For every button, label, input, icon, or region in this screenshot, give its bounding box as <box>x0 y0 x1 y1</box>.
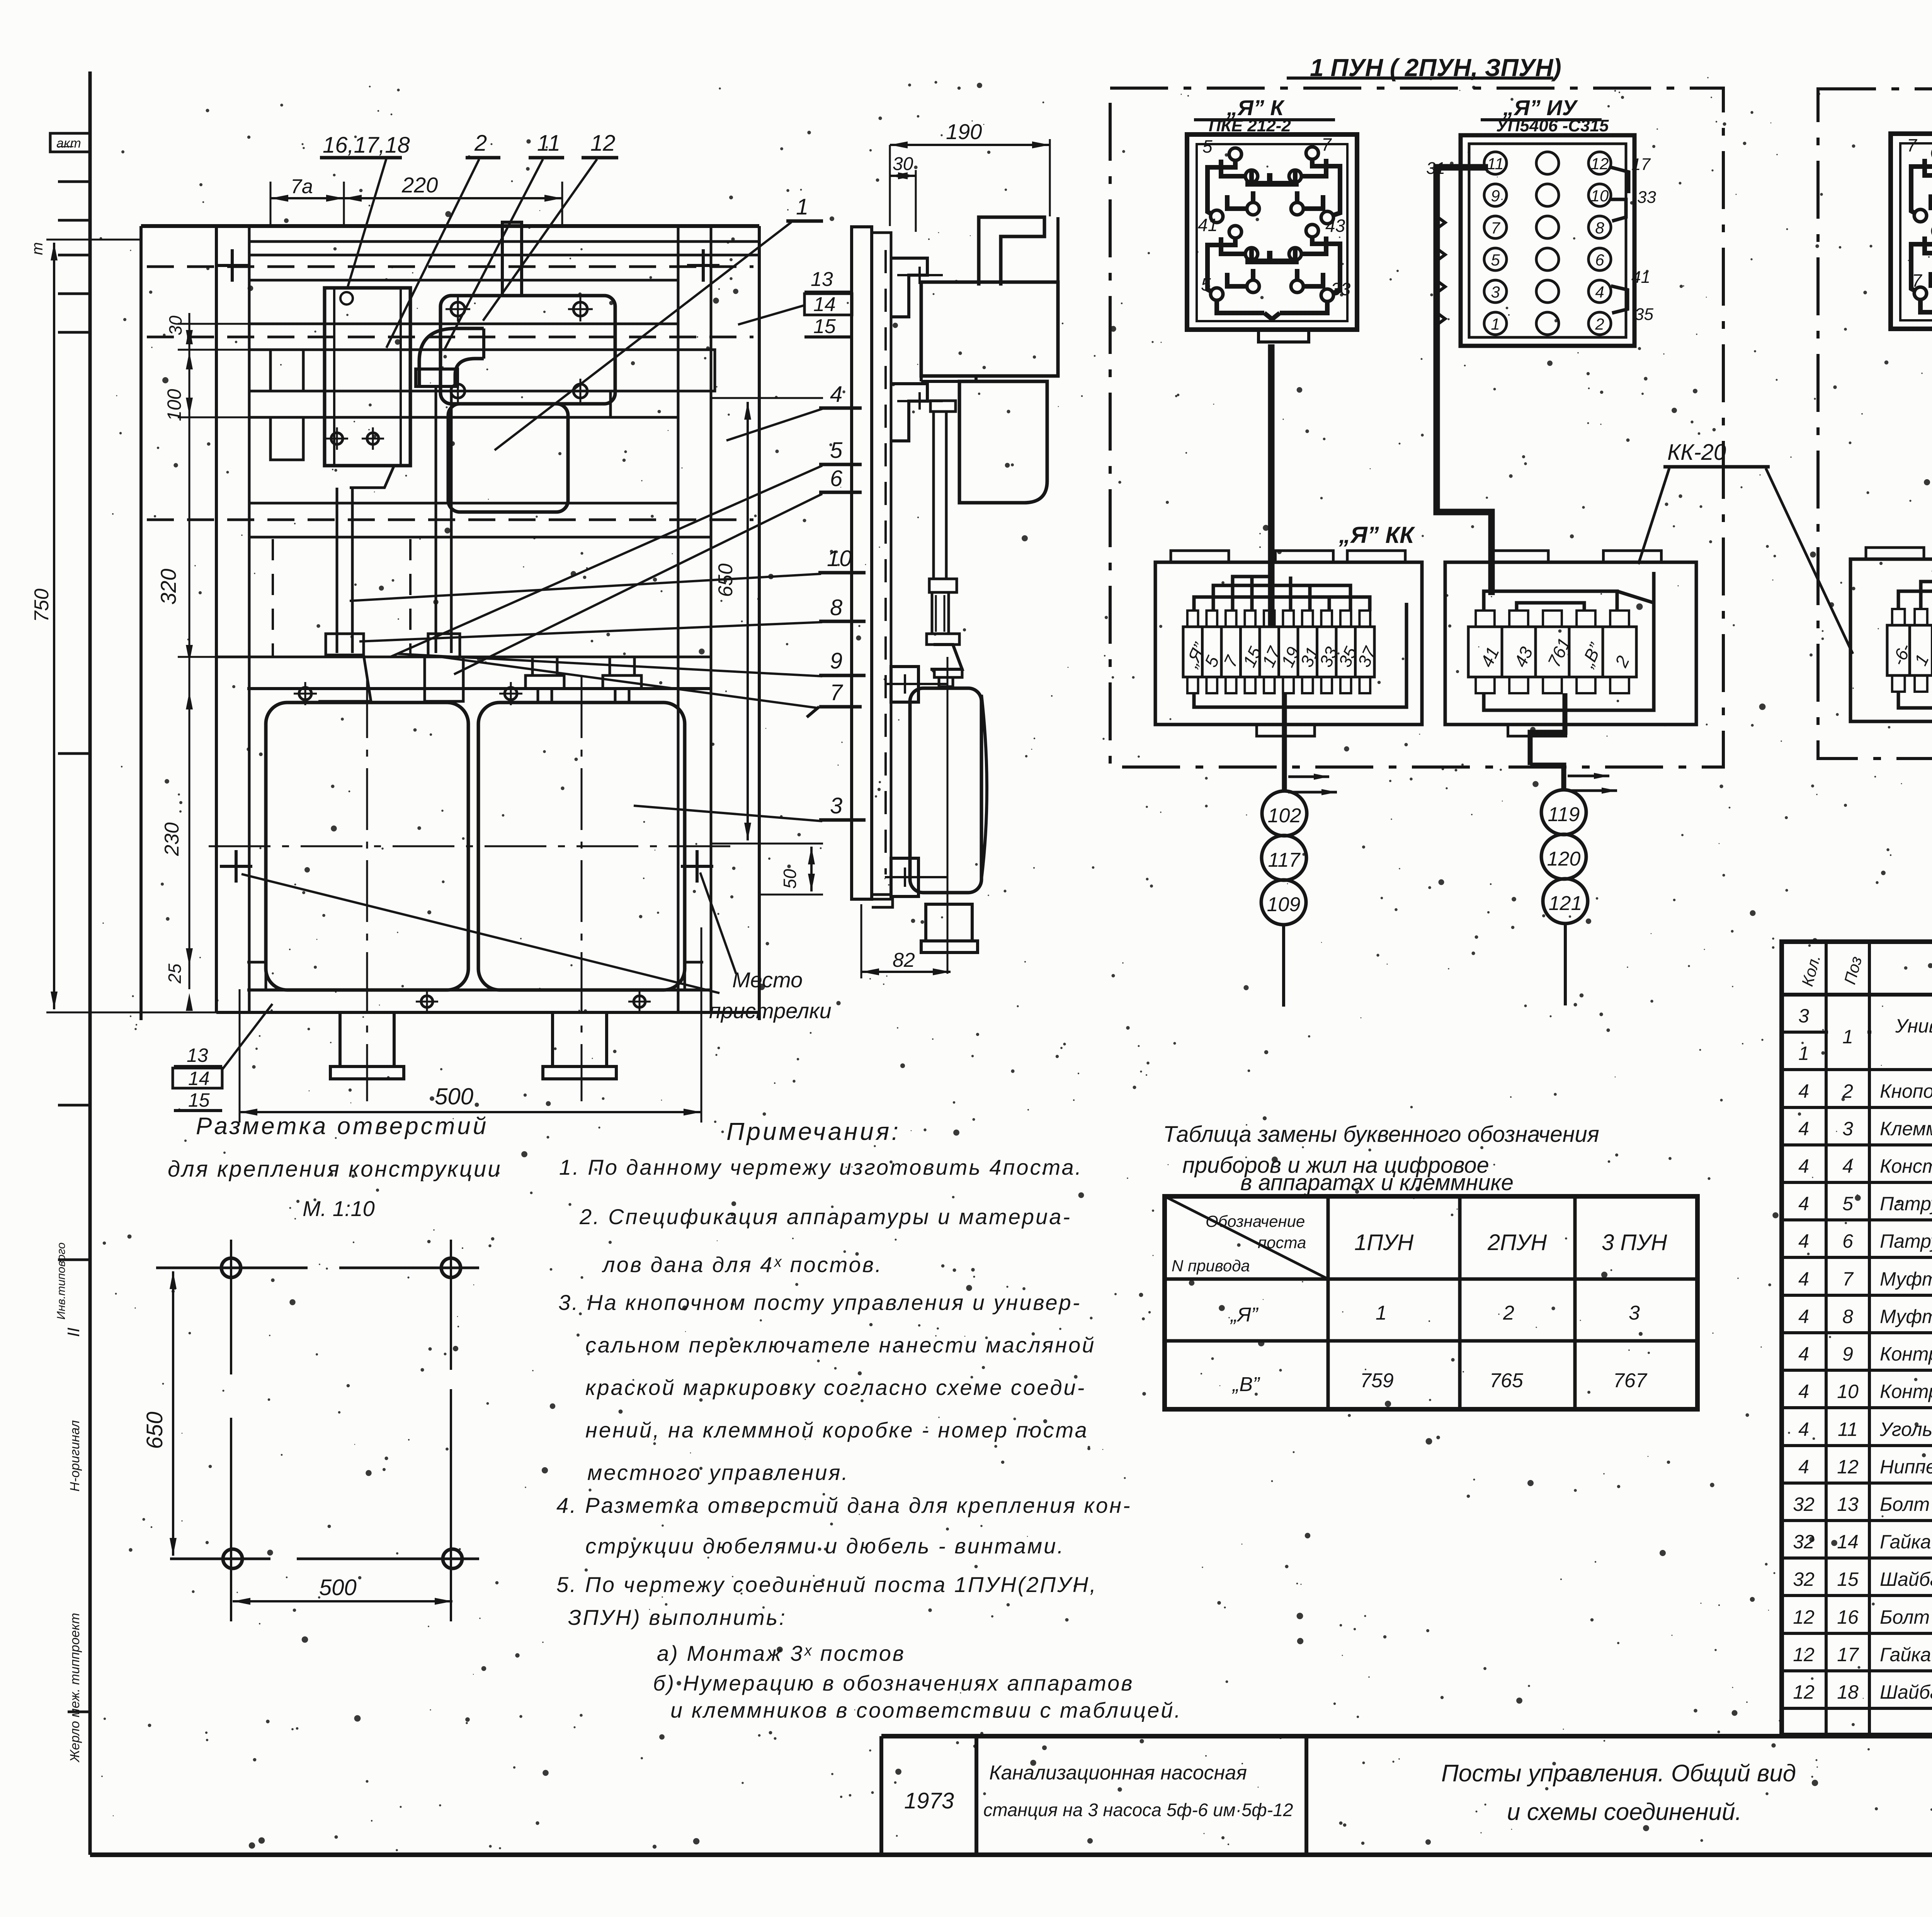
svg-text:31: 31 <box>1426 159 1445 178</box>
cable circles 102 117 109 <box>1262 791 1307 836</box>
svg-text:16,17,18: 16,17,18 <box>323 133 410 158</box>
svg-text:4: 4 <box>1798 1118 1809 1140</box>
tank fittings on right <box>526 675 564 689</box>
svg-text:121: 121 <box>1549 892 1582 915</box>
svg-text:М. 1:10: М. 1:10 <box>303 1196 375 1221</box>
side view switch box <box>921 282 1058 376</box>
svg-text:7: 7 <box>830 680 844 705</box>
svg-text:4: 4 <box>1595 283 1604 301</box>
side view dim 190 <box>890 144 1050 146</box>
terminal cell <box>1336 627 1355 677</box>
connector body <box>1461 135 1634 346</box>
side view pipe <box>930 401 956 412</box>
contact row <box>1484 216 1507 238</box>
box bottom tab <box>1257 725 1315 736</box>
connector body <box>1891 134 1932 329</box>
svg-text:4: 4 <box>1798 1419 1809 1440</box>
svg-text:750: 750 <box>31 589 53 622</box>
connector cable tab <box>1259 330 1309 342</box>
svg-text:Гайка ГОСТ 5915-70: Гайка ГОСТ 5915-70 <box>1880 1531 1932 1553</box>
terminal boxes KK-20 (pos 3) front: two tanks <box>247 687 711 690</box>
svg-text:4: 4 <box>1798 1456 1809 1478</box>
terminal cell <box>1502 627 1536 677</box>
terminal box right half <box>1445 562 1696 725</box>
YAIU right hooks <box>1611 199 1626 221</box>
svg-text:25: 25 <box>165 963 185 984</box>
universal switch (pos 1) <box>502 222 522 296</box>
cable circles 119 120 121 <box>1541 790 1586 835</box>
svg-text:12: 12 <box>590 131 616 156</box>
svg-text:3. На кнопочном посту управ: 3. На кнопочном посту управления и униве… <box>558 1290 1081 1315</box>
terminal box left half <box>1155 562 1422 725</box>
svg-text:б) Нумерацию в обозначениях: б) Нумерацию в обозначениях аппаратов <box>653 1671 1134 1695</box>
terminal cell <box>1202 627 1222 677</box>
svg-text:Инв.типового: Инв.типового <box>55 1242 68 1320</box>
svg-text:1: 1 <box>1798 1043 1809 1064</box>
side view terminal box KK-20 <box>910 688 981 893</box>
svg-text:5: 5 <box>1491 251 1500 269</box>
svg-text:119: 119 <box>1548 803 1580 826</box>
dim 650 hole layout <box>172 1271 174 1556</box>
frame bottom border <box>90 1852 1932 1857</box>
svg-text:12: 12 <box>1793 1681 1815 1703</box>
svg-text:117: 117 <box>1268 849 1301 871</box>
side view bracket 2 <box>891 384 927 441</box>
svg-text:3 ПУН: 3 ПУН <box>1602 1230 1667 1255</box>
svg-text:а) Монтаж 3ˣ постов: а) Монтаж 3ˣ постов <box>657 1641 905 1665</box>
svg-text:8: 8 <box>1842 1306 1853 1327</box>
svg-text:12: 12 <box>1793 1606 1815 1628</box>
svg-text:Конструкция поста: Конструкция поста <box>1880 1155 1932 1177</box>
terminal cell <box>1317 627 1337 677</box>
svg-text:Болт ГОСТ 7798-70: Болт ГОСТ 7798-70 <box>1880 1493 1932 1515</box>
svg-text:4: 4 <box>1798 1306 1809 1327</box>
svg-text:7: 7 <box>1907 135 1917 155</box>
side view centerline <box>947 657 949 974</box>
terminal cell <box>1910 625 1932 675</box>
dim 750 left <box>46 239 141 241</box>
svg-text:Жерло меж. типпроект: Жерло меж. типпроект <box>68 1613 82 1763</box>
svg-text:Место: Место <box>732 968 803 992</box>
svg-text:в аппаратах и клеммнике: в аппаратах и клеммнике <box>1240 1170 1514 1195</box>
svg-text:и схемы соединений.: и схемы соединений. <box>1507 1799 1742 1825</box>
svg-text:1. По данному чертежу изгото: 1. По данному чертежу изготовить 4поста. <box>559 1155 1083 1179</box>
svg-text:7: 7 <box>1912 270 1922 291</box>
svg-text:N привода: N привода <box>1172 1257 1250 1275</box>
svg-text:4: 4 <box>1798 1193 1809 1214</box>
svg-text:9: 9 <box>830 648 842 674</box>
svg-text:6: 6 <box>1595 251 1604 269</box>
svg-text:767: 767 <box>1613 1369 1648 1392</box>
svg-text:5. По чертежу соединений: 5. По чертежу соединений поста 1ПУН(2ПУН… <box>556 1572 1097 1597</box>
terminal cell <box>1221 627 1241 677</box>
svg-text:7: 7 <box>1491 219 1500 237</box>
tank centerlines <box>209 845 734 847</box>
svg-text:15: 15 <box>813 315 836 338</box>
svg-text:12: 12 <box>1793 1644 1815 1665</box>
svg-text:30: 30 <box>893 154 913 174</box>
wire: YAK to YAKK strip <box>1268 344 1275 627</box>
svg-text:Гайка ГОСТ 5915-70: Гайка ГОСТ 5915-70 <box>1880 1644 1932 1665</box>
svg-text:14: 14 <box>813 293 836 316</box>
svg-text:6: 6 <box>1842 1230 1853 1252</box>
svg-text:220: 220 <box>401 173 438 197</box>
svg-text:7: 7 <box>1321 134 1332 155</box>
svg-text:Муфта прямая ГОСТ 8954-59: Муфта прямая ГОСТ 8954-59 <box>1880 1268 1932 1290</box>
svg-text:Универсальный переключатель: Универсальный переключатель <box>1895 1015 1932 1037</box>
svg-text:7: 7 <box>1842 1268 1854 1290</box>
top dims 7a 220 <box>270 182 272 226</box>
svg-text:Посты управления. Общий: Посты управления. Общий вид <box>1441 1760 1796 1787</box>
box mounting tab <box>1171 551 1229 562</box>
svg-text:поста: поста <box>1258 1233 1306 1252</box>
svg-text:нений, на клеммной коробке: нений, на клеммной коробке - номер поста <box>585 1418 1088 1442</box>
terminal cell <box>1279 627 1298 677</box>
contact row <box>1484 248 1507 270</box>
wire: YAKK to cable 119 <box>1530 693 1565 738</box>
dim 650/50 right <box>711 397 823 399</box>
svg-text:100: 100 <box>163 389 185 421</box>
box mounting tab <box>1276 551 1333 562</box>
svg-text:2. Спецификация аппаратуры и: 2. Спецификация аппаратуры и материа- <box>579 1204 1071 1229</box>
connector body <box>1187 134 1357 330</box>
svg-text:4: 4 <box>1842 1155 1853 1177</box>
svg-text:II: II <box>64 1328 83 1337</box>
svg-text:сальном переключателе нанест: сальном переключателе нанести масляной <box>585 1333 1095 1357</box>
svg-text:43: 43 <box>1325 216 1345 236</box>
svg-text:1: 1 <box>1491 315 1500 333</box>
svg-text:102: 102 <box>1268 805 1301 827</box>
svg-text:Патрубок ст.: Патрубок ст. <box>1880 1230 1932 1252</box>
terminal cell <box>1569 627 1603 677</box>
svg-text:и клеммников в соответстви: и клеммников в соответствии с таблицей. <box>670 1698 1182 1722</box>
terminal cell <box>1603 627 1636 677</box>
svg-text:8: 8 <box>830 595 842 620</box>
svg-text:Таблица замены буквенного о: Таблица замены буквенного обозначения <box>1163 1122 1599 1147</box>
svg-text:759: 759 <box>1360 1369 1394 1392</box>
svg-text:10: 10 <box>1837 1381 1859 1402</box>
specification table <box>1782 942 1932 1735</box>
svg-text:Разметка отверстий: Разметка отверстий <box>196 1113 488 1140</box>
svg-text:Н-оригинал: Н-оригинал <box>68 1420 82 1492</box>
svg-text:Ниппель ст.: Ниппель ст. <box>1880 1456 1932 1478</box>
terminal cell <box>1355 627 1375 677</box>
dim 500 hole layout <box>233 1600 452 1602</box>
side view button station <box>959 381 1047 503</box>
svg-text:11: 11 <box>1838 1419 1858 1440</box>
rail blocks <box>270 350 303 391</box>
1PUN dash-dot boundary <box>1110 88 1723 767</box>
svg-text:190: 190 <box>946 119 982 144</box>
side view cylinder brackets <box>891 667 918 702</box>
6K dash-dot boundary <box>1818 89 1932 759</box>
svg-text:УП5406 -С315: УП5406 -С315 <box>1496 116 1609 135</box>
svg-text:5: 5 <box>1842 1193 1853 1214</box>
terminal box left half <box>1850 559 1932 721</box>
svg-text:струкции дюбелями и дюбель: струкции дюбелями и дюбель - винтами. <box>585 1534 1065 1558</box>
svg-text:50: 50 <box>780 869 800 889</box>
conduit elbow + pipe B <box>419 328 484 386</box>
svg-text:15: 15 <box>188 1089 210 1111</box>
svg-text:5: 5 <box>1201 274 1211 294</box>
title block <box>881 1734 1932 1738</box>
svg-text:1973: 1973 <box>904 1788 954 1813</box>
svg-text:КК-20: КК-20 <box>1667 440 1726 465</box>
svg-text:2: 2 <box>474 131 487 156</box>
svg-text:4: 4 <box>830 382 842 407</box>
svg-text:32: 32 <box>1793 1568 1815 1590</box>
svg-text:„В”: „В” <box>1232 1373 1260 1396</box>
svg-text:10: 10 <box>1591 187 1609 205</box>
hole circles <box>221 1258 241 1277</box>
svg-text:500: 500 <box>435 1084 473 1109</box>
svg-text:33: 33 <box>1637 188 1656 207</box>
box mounting tab <box>1866 548 1924 559</box>
svg-text:3: 3 <box>1842 1118 1853 1140</box>
svg-text:Шайба ГОСТ 11371-68: Шайба ГОСТ 11371-68 <box>1880 1681 1932 1703</box>
exit arrows left <box>1314 774 1329 780</box>
terminal cell <box>1298 627 1317 677</box>
svg-text:4: 4 <box>1798 1343 1809 1365</box>
svg-text:местного управления.: местного управления. <box>587 1460 849 1485</box>
svg-text:7a: 7a <box>291 175 313 198</box>
YAKK comb wiring left <box>1194 597 1370 611</box>
svg-text:17: 17 <box>1631 155 1651 174</box>
svg-text:Шайба ГОСТ 11371-68: Шайба ГОСТ 11371-68 <box>1880 1568 1932 1590</box>
svg-text:Болт ГОСТ 7798-70: Болт ГОСТ 7798-70 <box>1880 1606 1932 1628</box>
svg-text:Угольник прямой ГОСТ8946-59: Угольник прямой ГОСТ8946-59 <box>1879 1419 1932 1440</box>
svg-text:15: 15 <box>1837 1568 1859 1590</box>
svg-text:230: 230 <box>161 822 183 856</box>
side view: mounting plate <box>852 227 872 899</box>
svg-text:2: 2 <box>1595 315 1604 333</box>
svg-text:4: 4 <box>1798 1080 1809 1102</box>
6KK comb wiring left <box>1898 591 1932 610</box>
svg-text:14: 14 <box>188 1068 210 1089</box>
svg-text:3: 3 <box>1629 1302 1640 1324</box>
svg-text:4: 4 <box>1798 1268 1809 1290</box>
svg-text:Муфта переходная ГОСТ 6357-59: Муфта переходная ГОСТ 6357-59 <box>1880 1306 1932 1327</box>
svg-text:17: 17 <box>1837 1644 1859 1665</box>
svg-text:Обозначение: Обозначение <box>1206 1212 1305 1230</box>
svg-text:30: 30 <box>165 315 185 335</box>
front view: post assembly outline <box>141 224 759 228</box>
svg-text:т: т <box>29 242 46 255</box>
YAKK cross wiring below strip <box>1194 603 1406 707</box>
svg-text:пристрелки: пристрелки <box>709 998 832 1023</box>
svg-text:1: 1 <box>1376 1302 1387 1324</box>
svg-text:8: 8 <box>1595 219 1604 237</box>
terminal cell <box>1260 627 1279 677</box>
side view foot <box>926 904 972 941</box>
6KK lower cross wiring <box>1898 692 1932 708</box>
stamp box akt <box>50 133 90 152</box>
wire: YAKK to cable 102 <box>1282 693 1287 791</box>
svg-text:11: 11 <box>1487 155 1504 173</box>
frame left border <box>88 71 92 1855</box>
svg-text:2: 2 <box>1503 1302 1514 1324</box>
svg-text:лов дана для 4ˣ постов.: лов дана для 4ˣ постов. <box>602 1252 883 1277</box>
svg-text:„Я” КК: „Я” КК <box>1338 522 1415 548</box>
svg-text:18: 18 <box>1837 1681 1859 1703</box>
conduit pipe A <box>336 488 338 653</box>
svg-text:12: 12 <box>1837 1456 1859 1478</box>
svg-text:9: 9 <box>1491 187 1500 205</box>
svg-text:1: 1 <box>796 194 808 219</box>
terminal cell <box>1241 627 1260 677</box>
svg-text:5: 5 <box>830 438 843 463</box>
plus marks (attachment points) <box>216 264 248 267</box>
svg-text:12: 12 <box>1591 155 1609 173</box>
exit arrows right <box>1594 773 1609 779</box>
svg-text:3: 3 <box>1798 1005 1809 1027</box>
svg-text:4: 4 <box>1798 1155 1809 1177</box>
push-button station (pos 2) front <box>325 288 410 466</box>
substitution table diagonal <box>1165 1196 1328 1279</box>
svg-text:35: 35 <box>1634 305 1653 324</box>
frame margin ticks <box>58 180 90 183</box>
svg-text:3: 3 <box>1491 283 1500 301</box>
substitution table grid <box>1165 1196 1697 1409</box>
svg-text:„Я”: „Я” <box>1230 1304 1259 1326</box>
front view rails <box>249 240 759 243</box>
terminal cell <box>1183 627 1202 677</box>
svg-text:3: 3 <box>830 793 842 818</box>
svg-text:1: 1 <box>1842 1026 1853 1048</box>
svg-text:11: 11 <box>537 131 560 156</box>
hole layout centerlines <box>156 1267 308 1269</box>
bottom dim 500 <box>239 989 241 1123</box>
svg-text:320: 320 <box>156 569 180 605</box>
button module <box>1229 148 1242 160</box>
svg-text:13: 13 <box>187 1044 208 1066</box>
svg-text:Канализационная насосная: Канализационная насосная <box>989 1762 1247 1784</box>
svg-text:120: 120 <box>1547 848 1581 870</box>
svg-text:82: 82 <box>893 949 915 971</box>
svg-text:—: — <box>58 137 74 154</box>
svg-text:32: 32 <box>1793 1493 1815 1515</box>
svg-text:2ПУН: 2ПУН <box>1487 1230 1547 1255</box>
side view bracket top <box>891 258 927 317</box>
svg-text:1ПУН: 1ПУН <box>1354 1230 1413 1255</box>
svg-text:13: 13 <box>1837 1493 1859 1515</box>
YAIU left bus wire <box>1437 167 1488 332</box>
terminal cell <box>1468 627 1502 677</box>
side view funnel <box>930 645 962 669</box>
svg-text:Примечания:: Примечания: <box>726 1118 901 1145</box>
svg-text:4: 4 <box>1798 1230 1809 1252</box>
contact row <box>1484 280 1507 303</box>
svg-text:650: 650 <box>142 1412 167 1449</box>
svg-text:765: 765 <box>1490 1369 1524 1392</box>
svg-text:41: 41 <box>1198 215 1218 235</box>
svg-text:для крепления конструкции: для крепления конструкции <box>168 1157 502 1182</box>
spec merged cells fixups <box>1828 997 1867 1068</box>
svg-text:9: 9 <box>1842 1343 1853 1365</box>
YAKK comb wiring right <box>1484 591 1617 611</box>
svg-text:14: 14 <box>1837 1531 1859 1553</box>
terminal cell <box>1887 625 1910 675</box>
contact row <box>1484 312 1507 335</box>
svg-text:4: 4 <box>1798 1381 1809 1402</box>
svg-text:4. Разметка отверстий дана: 4. Разметка отверстий дана для крепления… <box>556 1493 1132 1517</box>
dims 30 100 320 230 25 <box>178 323 249 325</box>
svg-text:109: 109 <box>1267 893 1301 916</box>
terminal cell <box>1536 627 1569 677</box>
svg-text:10: 10 <box>827 546 852 571</box>
contact row <box>1484 152 1507 174</box>
wire: YAIU to YAKK <box>1437 332 1492 595</box>
svg-text:500: 500 <box>319 1575 357 1600</box>
base <box>247 988 711 992</box>
svg-text:13: 13 <box>811 268 833 291</box>
box mounting tab <box>1347 551 1405 562</box>
svg-text:краской маркировку согласно: краской маркировку согласно схеме соеди- <box>585 1375 1086 1400</box>
svg-text:Контргайка ГОСТ 8961-59: Контргайка ГОСТ 8961-59 <box>1880 1343 1932 1365</box>
button module <box>1229 226 1242 238</box>
box mounting tab <box>1604 551 1662 562</box>
svg-text:16: 16 <box>1837 1606 1859 1628</box>
svg-text:Контргайка ГОСТ 8961-59: Контргайка ГОСТ 8961-59 <box>1880 1381 1932 1402</box>
svg-text:5: 5 <box>1202 136 1213 156</box>
box mounting tab <box>1490 551 1548 562</box>
contact row <box>1484 184 1507 206</box>
svg-text:Кнопочный пост управления: Кнопочный пост управления <box>1880 1080 1932 1102</box>
svg-text:станция на 3 насоса 5ф-6 им·5: станция на 3 насоса 5ф-6 им·5ф-12 <box>983 1800 1293 1820</box>
svg-text:Патрубок ст.: Патрубок ст. <box>1880 1193 1932 1214</box>
svg-text:ЗПУН) выполнить:: ЗПУН) выполнить: <box>568 1605 787 1630</box>
